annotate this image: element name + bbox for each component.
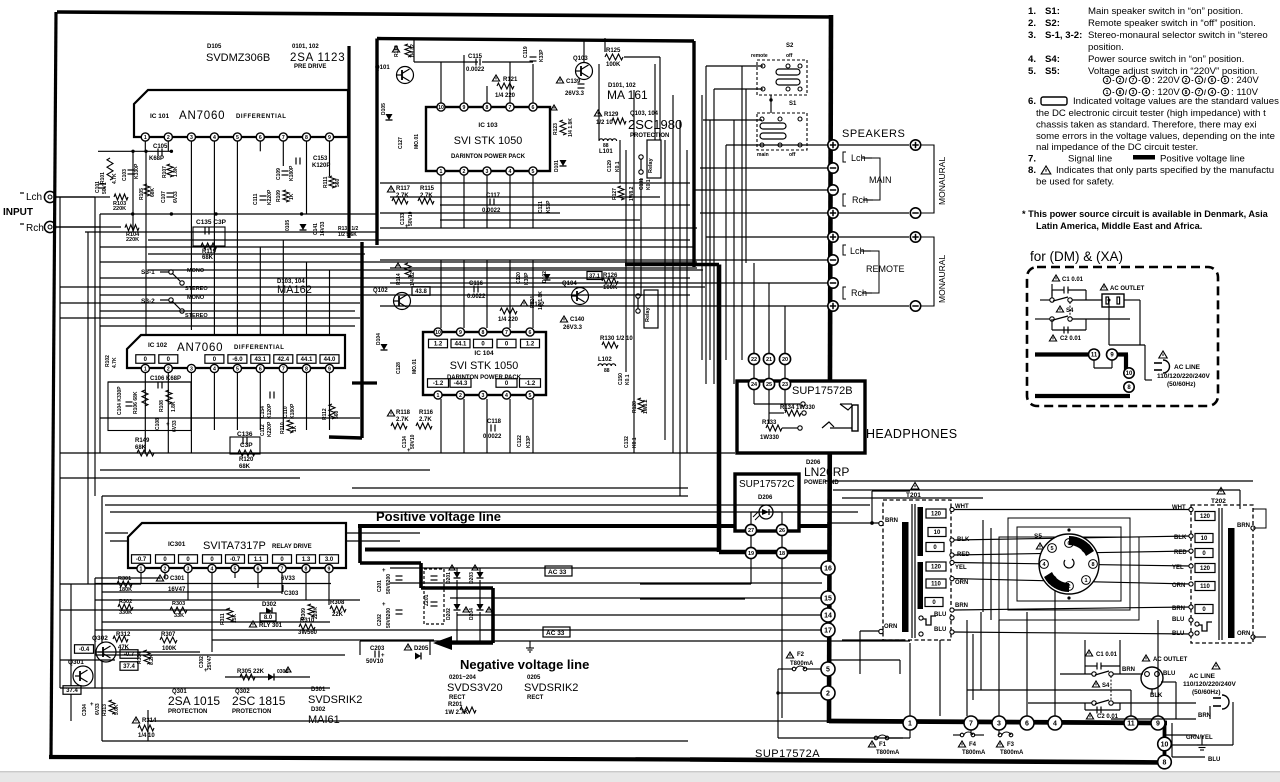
wire y599 xyxy=(640,598,745,600)
svg-text:S2:: S2: xyxy=(1045,18,1060,29)
svg-text:1W330: 1W330 xyxy=(760,435,780,441)
IC102 pin 9 xyxy=(325,364,333,372)
block SUP17572B headphone board xyxy=(737,381,865,453)
svg-text:SVITA7317P: SVITA7317P xyxy=(203,540,266,552)
svg-text:Indicated voltage values are t: Indicated voltage values are the standar… xyxy=(1073,96,1280,107)
svg-text:1: 1 xyxy=(1084,578,1087,584)
svg-text:R116: R116 xyxy=(419,410,434,416)
wire IC102 pin drop xyxy=(282,373,284,430)
svg-text:4: 4 xyxy=(1211,90,1214,96)
T202 warning xyxy=(1217,488,1225,495)
svg-text:8: 8 xyxy=(1091,562,1094,568)
wire IC103 top pin riser x441 xyxy=(440,62,442,103)
diode D204 xyxy=(477,604,484,610)
capacitor C1 xyxy=(1064,287,1068,294)
capacitor C201 sym xyxy=(396,576,403,580)
svg-text:2SA 1123: 2SA 1123 xyxy=(290,52,345,64)
wire lower mesh y600 xyxy=(95,599,360,601)
S4 warning right xyxy=(1092,681,1099,687)
svg-text:R307: R307 xyxy=(161,632,176,638)
svg-text:Main speaker switch in “on” po: Main speaker switch in “on” position. xyxy=(1088,6,1243,17)
svg-text:C110: C110 xyxy=(283,406,289,418)
T202 tap 110 xyxy=(1195,582,1215,591)
svg-text:R311: R311 xyxy=(220,613,226,625)
pin 11 DM/XA xyxy=(1089,349,1100,360)
svg-text:SVDMZ306B: SVDMZ306B xyxy=(206,52,270,64)
S4 warning xyxy=(1056,306,1063,312)
svg-text:SUP17572B: SUP17572B xyxy=(792,385,853,397)
svg-text:4: 4 xyxy=(211,566,214,572)
svg-text:44.1: 44.1 xyxy=(301,357,313,363)
wire pin18 down xyxy=(781,559,783,718)
thick bottom bus DM/XA xyxy=(1035,394,1130,398)
S5 position 7 xyxy=(1082,544,1091,553)
C1 warning xyxy=(1052,275,1059,281)
svg-text:5: 5 xyxy=(1224,78,1227,84)
wire thick jog v x360 xyxy=(358,526,362,563)
svg-text:7: 7 xyxy=(969,721,973,728)
svg-text:7: 7 xyxy=(1084,546,1087,552)
svg-text:6: 6 xyxy=(257,566,260,572)
svg-text:1.2: 1.2 xyxy=(434,342,443,348)
IC104 voltage box 1.2 xyxy=(521,339,540,348)
transformer T201 secondary bar lower xyxy=(918,562,924,609)
T202 tap circle y551 xyxy=(1189,549,1193,553)
C1 warning right xyxy=(1085,650,1092,656)
svg-text:8: 8 xyxy=(482,330,485,336)
svg-text:R129: R129 xyxy=(604,112,619,118)
svg-text:5: 5 xyxy=(826,667,830,674)
svg-text:Negative voltage line: Negative voltage line xyxy=(460,657,589,672)
S1 contact xyxy=(760,117,764,121)
svg-text:1W8.2: 1W8.2 xyxy=(643,399,649,414)
svg-text:11: 11 xyxy=(1127,721,1135,728)
diode D105 pre xyxy=(386,114,393,120)
wire inter-IC vertical x214.4 xyxy=(213,214,215,335)
svg-text:100K: 100K xyxy=(606,62,621,68)
svg-text:C107: C107 xyxy=(161,191,167,203)
wire C1 riser xyxy=(1084,640,1086,666)
ground symbol AC xyxy=(1197,735,1207,750)
wire lower y655 xyxy=(95,654,345,656)
svg-text:S-1, 3-2:: S-1, 3-2: xyxy=(1045,30,1082,41)
wire vertical x88 xyxy=(87,232,89,584)
wire WHT run xyxy=(954,509,1191,511)
svg-text:C132: C132 xyxy=(624,436,630,448)
pin 18 xyxy=(776,547,787,558)
wire thick jog v x493 xyxy=(491,588,495,643)
svg-text:6: 6 xyxy=(1145,78,1148,84)
IC101 pin 4 xyxy=(210,133,218,141)
ground symbol negative line xyxy=(526,641,534,652)
wire thick line x362 xyxy=(360,242,363,438)
voltage selector S5 body xyxy=(1039,534,1099,594)
svg-text:-0.7: -0.7 xyxy=(230,557,241,563)
wire IC104 pin1 drop xyxy=(440,399,442,453)
wire vertical x71 xyxy=(70,584,72,721)
svg-text:7: 7 xyxy=(1132,78,1135,84)
resistor R301 xyxy=(117,581,132,587)
wire to pin21 xyxy=(768,283,770,354)
svg-text:+: + xyxy=(405,224,409,230)
S1 contact xyxy=(778,143,782,147)
wire vertical x655 xyxy=(654,64,656,140)
svg-text:4: 4 xyxy=(213,366,216,372)
S5 position 4 xyxy=(1040,560,1049,569)
svg-text:PROTECTION: PROTECTION xyxy=(168,709,207,715)
wire horizontal y283 xyxy=(390,282,710,284)
svg-text:R115: R115 xyxy=(420,186,435,192)
svg-text:9: 9 xyxy=(328,566,331,572)
svg-text:2: 2 xyxy=(459,393,462,399)
wire horizontal y295 xyxy=(100,294,690,296)
svg-text:S4:: S4: xyxy=(1045,54,1060,65)
T202 tap circle y607 xyxy=(1189,605,1193,609)
svg-text:120: 120 xyxy=(1200,514,1211,520)
wire horizontal y260 xyxy=(380,259,694,261)
svg-text:18: 18 xyxy=(779,551,785,557)
svg-text:K0.1: K0.1 xyxy=(646,179,652,190)
svg-text:R149: R149 xyxy=(135,438,150,444)
IC103 pin 6 xyxy=(529,103,537,111)
svg-text:16: 16 xyxy=(824,566,832,573)
svg-text:Z201: Z201 xyxy=(424,594,430,606)
T201 tap circle y509.5 xyxy=(950,507,954,511)
svg-text:K220P: K220P xyxy=(267,421,273,437)
svg-text:+: + xyxy=(204,668,208,674)
AC outlet symbol xyxy=(1102,294,1124,307)
svg-text:R127: R127 xyxy=(612,188,618,200)
inductor L101 xyxy=(599,139,617,141)
wire vertical x60 xyxy=(59,197,61,584)
svg-text:PRE DRIVE: PRE DRIVE xyxy=(294,64,326,70)
pin 7 bottom bus xyxy=(964,716,978,730)
svg-text:K120P: K120P xyxy=(267,403,273,419)
pin 2 bus xyxy=(821,686,835,700)
svg-text:BLU: BLU xyxy=(1208,757,1220,763)
svg-text:T800mA: T800mA xyxy=(1000,750,1024,756)
wire feeder x973 xyxy=(972,634,974,700)
svg-text:Positive voltage line: Positive voltage line xyxy=(1160,154,1245,165)
wire lower y677 xyxy=(225,676,310,678)
IC101 pin 9 xyxy=(325,133,333,141)
svg-text:1.2: 1.2 xyxy=(526,342,535,348)
relay contact 2b xyxy=(636,309,640,313)
wire IC104 pin9 rise xyxy=(463,260,465,328)
svg-text:BLU: BLU xyxy=(1172,617,1184,623)
op-amp IC101 AN7060 block xyxy=(134,90,348,137)
svg-text:SUP17572A: SUP17572A xyxy=(755,748,820,760)
capacitor C202 sym xyxy=(396,610,403,614)
svg-text:6V33: 6V33 xyxy=(281,576,296,582)
AC line warning right xyxy=(1212,663,1220,670)
relay contact 1b xyxy=(639,170,643,174)
T202 tap 10 xyxy=(1195,534,1213,543)
wire power stage frame top xyxy=(377,39,694,42)
IC301 voltage box 0 xyxy=(156,555,175,564)
wire IC104 pin7 rise xyxy=(509,260,511,328)
svg-text:INPUT: INPUT xyxy=(3,207,33,218)
svg-text:C131: C131 xyxy=(639,178,645,190)
svg-text:off: off xyxy=(789,152,796,158)
svg-text:Power source switch in “on” po: Power source switch in “on” position. xyxy=(1088,54,1244,65)
diode D201 xyxy=(454,572,461,578)
svg-text:2.7K: 2.7K xyxy=(396,193,409,199)
varistor Z201 dashed box xyxy=(424,569,444,624)
relay driver IC301 SVITA7317P block xyxy=(128,523,346,568)
resistor R133 xyxy=(766,425,782,431)
wire lower mesh y584 xyxy=(60,583,141,585)
svg-text:110/120/220/240V: 110/120/220/240V xyxy=(1157,373,1210,380)
wire IC102 pin drop xyxy=(167,373,169,453)
wire vertical x702 xyxy=(701,95,703,360)
wire BRN run xyxy=(954,607,1191,610)
pin 19 xyxy=(745,547,756,558)
svg-text:10: 10 xyxy=(1201,536,1208,542)
wire feeder x999 xyxy=(998,620,1000,716)
wire monaural bracket remote xyxy=(921,237,934,306)
IC301 pin 9 xyxy=(325,564,333,572)
C140 warning xyxy=(560,316,567,322)
svg-text:C141: C141 xyxy=(313,223,319,235)
svg-text:for (DM) & (XA): for (DM) & (XA) xyxy=(1030,249,1123,264)
T202 tap 120b xyxy=(1195,564,1215,573)
wire feeder x1158 xyxy=(1157,620,1159,716)
svg-text:8: 8 xyxy=(1185,90,1188,96)
svg-text:3: 3 xyxy=(190,135,193,141)
S2 contact xyxy=(761,87,765,91)
pin 6 bottom bus xyxy=(1020,716,1034,730)
wire lower y568 xyxy=(390,567,822,569)
pin 17 bus xyxy=(821,623,835,637)
C301 warning xyxy=(156,575,163,581)
bracket Lch remote xyxy=(843,245,846,255)
svg-text:88: 88 xyxy=(604,368,610,374)
wire main bracket xyxy=(872,158,880,200)
IC103 pin 2 xyxy=(460,167,468,175)
C139 warning xyxy=(556,77,563,83)
svg-text:position.: position. xyxy=(1088,42,1124,53)
svg-text:Q104: Q104 xyxy=(562,281,577,287)
S1 contact xyxy=(760,143,764,147)
wire IC103 pin3 drop xyxy=(486,175,488,228)
wire pin22-24 xyxy=(753,364,755,379)
wire horizontal y120 xyxy=(703,119,762,121)
svg-text:2: 2 xyxy=(167,135,170,141)
F2 warning xyxy=(786,652,793,658)
svg-text:MONAURAL: MONAURAL xyxy=(937,157,947,205)
svg-text:1K: 1K xyxy=(289,193,295,200)
svg-text:PROTECTION: PROTECTION xyxy=(232,709,271,715)
switch S2 box xyxy=(757,60,807,95)
svg-text:* This power source circuit: * This power source circuit is available… xyxy=(1022,209,1269,219)
wire mid xyxy=(1109,344,1145,346)
T202 tap circle y566 xyxy=(1189,564,1193,568)
svg-text:21: 21 xyxy=(766,357,772,363)
svg-text:2.: 2. xyxy=(1028,18,1036,29)
svg-text:C301: C301 xyxy=(170,576,185,582)
wire inter-IC vertical x306.5 xyxy=(306,262,308,335)
wire horizontal y470 xyxy=(100,469,430,471)
wire IC103 top pin riser x510 xyxy=(509,62,511,103)
svg-text:C105: C105 xyxy=(153,144,168,150)
svg-text:2: 2 xyxy=(167,366,170,372)
svg-text:1: 1 xyxy=(1106,90,1109,96)
T201 tap 120 xyxy=(926,509,946,518)
svg-text:-0.4: -0.4 xyxy=(79,647,90,653)
capacitor C2 xyxy=(1064,327,1068,334)
svg-text:68K: 68K xyxy=(150,187,156,197)
IC104 voltage box -44.3 xyxy=(450,379,471,388)
wire lower y630 xyxy=(480,629,822,631)
svg-text:1.8K: 1.8K xyxy=(171,401,177,412)
svg-text:Q103: Q103 xyxy=(573,56,588,62)
svg-text:15: 15 xyxy=(824,596,832,603)
capacitor C153 xyxy=(296,158,300,165)
svg-text:0205: 0205 xyxy=(527,675,541,681)
wire horizontal y478 xyxy=(60,477,300,479)
wire lower mesh y610 xyxy=(60,609,230,611)
svg-text:IC301: IC301 xyxy=(168,541,186,548)
power pack IC104 SVI STK 1050 block xyxy=(423,332,546,395)
transformer T201 secondary bar upper xyxy=(918,507,924,556)
boxed value 43.8 xyxy=(412,287,430,296)
wire lower y688 xyxy=(60,687,330,689)
svg-text:-1.2: -1.2 xyxy=(525,381,536,387)
wire y151 xyxy=(98,150,172,152)
svg-text:AC 33: AC 33 xyxy=(548,569,567,576)
svg-text:D202: D202 xyxy=(446,608,452,620)
wire lower v x360 xyxy=(359,641,361,655)
wire lower horizontal y541 xyxy=(110,540,128,542)
wire horizontal y213 xyxy=(700,212,828,214)
wire YEL run xyxy=(954,563,1191,567)
IC104 pin 8 xyxy=(479,328,487,336)
wire IC101 pin9 drop xyxy=(329,141,331,176)
svg-text:C116: C116 xyxy=(469,281,484,287)
wire BRN left xyxy=(831,522,879,524)
wire vertical x665 xyxy=(664,140,666,440)
relay contact 1a xyxy=(639,155,643,159)
for DM/XA dashed box xyxy=(1027,267,1218,406)
svg-text:26V3.3: 26V3.3 xyxy=(565,91,585,97)
wire IC101 pin7 drop xyxy=(282,141,284,166)
wire inter-IC vertical x329.5 xyxy=(329,270,331,335)
svg-text:+: + xyxy=(382,568,386,574)
T202 tap circle y634 xyxy=(1189,632,1193,636)
svg-text:C153: C153 xyxy=(313,156,328,162)
wire y62b xyxy=(482,61,533,63)
wire horizontal y89 xyxy=(714,88,763,90)
wire horizontal y306 xyxy=(380,305,700,307)
block SUP17572C power indicator board xyxy=(735,474,799,531)
wire plug cord xyxy=(1232,702,1234,745)
IC104 pin 1 xyxy=(434,391,442,399)
speaker terminal - y190 xyxy=(828,185,838,195)
T202 tap circle y509.5 xyxy=(1189,507,1193,511)
svg-text:9: 9 xyxy=(459,330,462,336)
svg-text:ORN: ORN xyxy=(884,624,897,630)
svg-text:R134 1W330: R134 1W330 xyxy=(780,405,816,411)
wire C1 left xyxy=(1051,284,1053,296)
diode D301 xyxy=(268,674,274,681)
R314 warning xyxy=(132,717,139,723)
svg-text:5: 5 xyxy=(234,566,237,572)
svg-text:S5: S5 xyxy=(1034,533,1042,540)
D201 warning xyxy=(449,565,455,570)
switch S1 box xyxy=(757,113,807,150)
IC104 pin 2 xyxy=(456,391,464,399)
resistor R201 xyxy=(460,707,476,713)
RLY301 warning xyxy=(249,621,256,627)
svg-text:1/4 10: 1/4 10 xyxy=(138,733,155,739)
capacitor C139 xyxy=(578,84,585,88)
svg-text:D302: D302 xyxy=(311,707,326,713)
capacitor C135 loop xyxy=(193,227,225,246)
wire thick line y438 xyxy=(329,437,362,438)
wire IC104 pin8 rise xyxy=(486,260,488,328)
svg-text:5: 5 xyxy=(236,135,239,141)
svg-text:: 220V: : 220V xyxy=(1152,75,1180,86)
wire vertical x673 xyxy=(672,95,674,453)
capacitor C104 xyxy=(126,402,133,406)
wire feeder x1027 xyxy=(1026,612,1028,716)
S5 position 3 xyxy=(1048,576,1057,585)
wire IC301 pin drop x165 xyxy=(164,573,166,578)
svg-text:Rch: Rch xyxy=(26,223,44,234)
svg-text:3: 3 xyxy=(187,566,190,572)
svg-text:REMOTE: REMOTE xyxy=(866,264,905,274)
svg-text:D302: D302 xyxy=(262,602,277,608)
IC104 voltage box 0 xyxy=(474,339,493,348)
pin 11 bottom bus xyxy=(1124,716,1138,730)
op-amp IC102 AN7060 block xyxy=(127,335,345,368)
F3 warning xyxy=(996,741,1003,747)
T201 tap circle y540 xyxy=(950,538,954,542)
wire IC103 pin1 drop xyxy=(440,175,442,228)
svg-text:7: 7 xyxy=(281,566,284,572)
svg-text:/: / xyxy=(1125,78,1127,85)
wire Q103 collector xyxy=(583,40,585,62)
junction dot 829,523 xyxy=(827,521,831,525)
wire lower v x95 xyxy=(94,578,96,688)
svg-text:Stereo-monaural selector swi: Stereo-monaural selector switch in “ster… xyxy=(1088,30,1268,41)
wire IC102 pin drop xyxy=(259,373,261,430)
resistor R117 xyxy=(392,198,408,204)
svg-text:1.: 1. xyxy=(1028,6,1036,17)
svg-text:1: 1 xyxy=(144,135,147,141)
svg-text:5.: 5. xyxy=(1028,66,1036,77)
pin 9 DM/XA xyxy=(1107,349,1118,360)
wire inter-IC vertical x283.3 xyxy=(282,240,284,335)
wire vertical x734 xyxy=(733,120,735,384)
svg-text:the DC electronic circuit test: the DC electronic circuit tester (high i… xyxy=(1036,108,1266,119)
svg-text:PROTECTION: PROTECTION xyxy=(630,133,669,139)
power pack IC103 SVI STK 1050 block xyxy=(426,107,550,171)
svg-text:C106 K68P: C106 K68P xyxy=(150,376,181,382)
wire horizontal y303 xyxy=(60,302,360,304)
capacitor C203 sym xyxy=(375,651,379,658)
svg-text:T800mA: T800mA xyxy=(876,750,900,756)
svg-text:R117: R117 xyxy=(396,186,411,192)
wire horizontal y254 xyxy=(148,253,365,255)
svg-text:nal impedance of the DC circui: nal impedance of the DC circuit tester. xyxy=(1036,142,1198,153)
IC101 pin 7 xyxy=(279,133,287,141)
wire Rch tick xyxy=(20,223,24,225)
svg-text:MONO: MONO xyxy=(187,268,205,274)
transformer T202 core xyxy=(1218,508,1220,640)
transformer T201 primary bar xyxy=(902,522,909,632)
